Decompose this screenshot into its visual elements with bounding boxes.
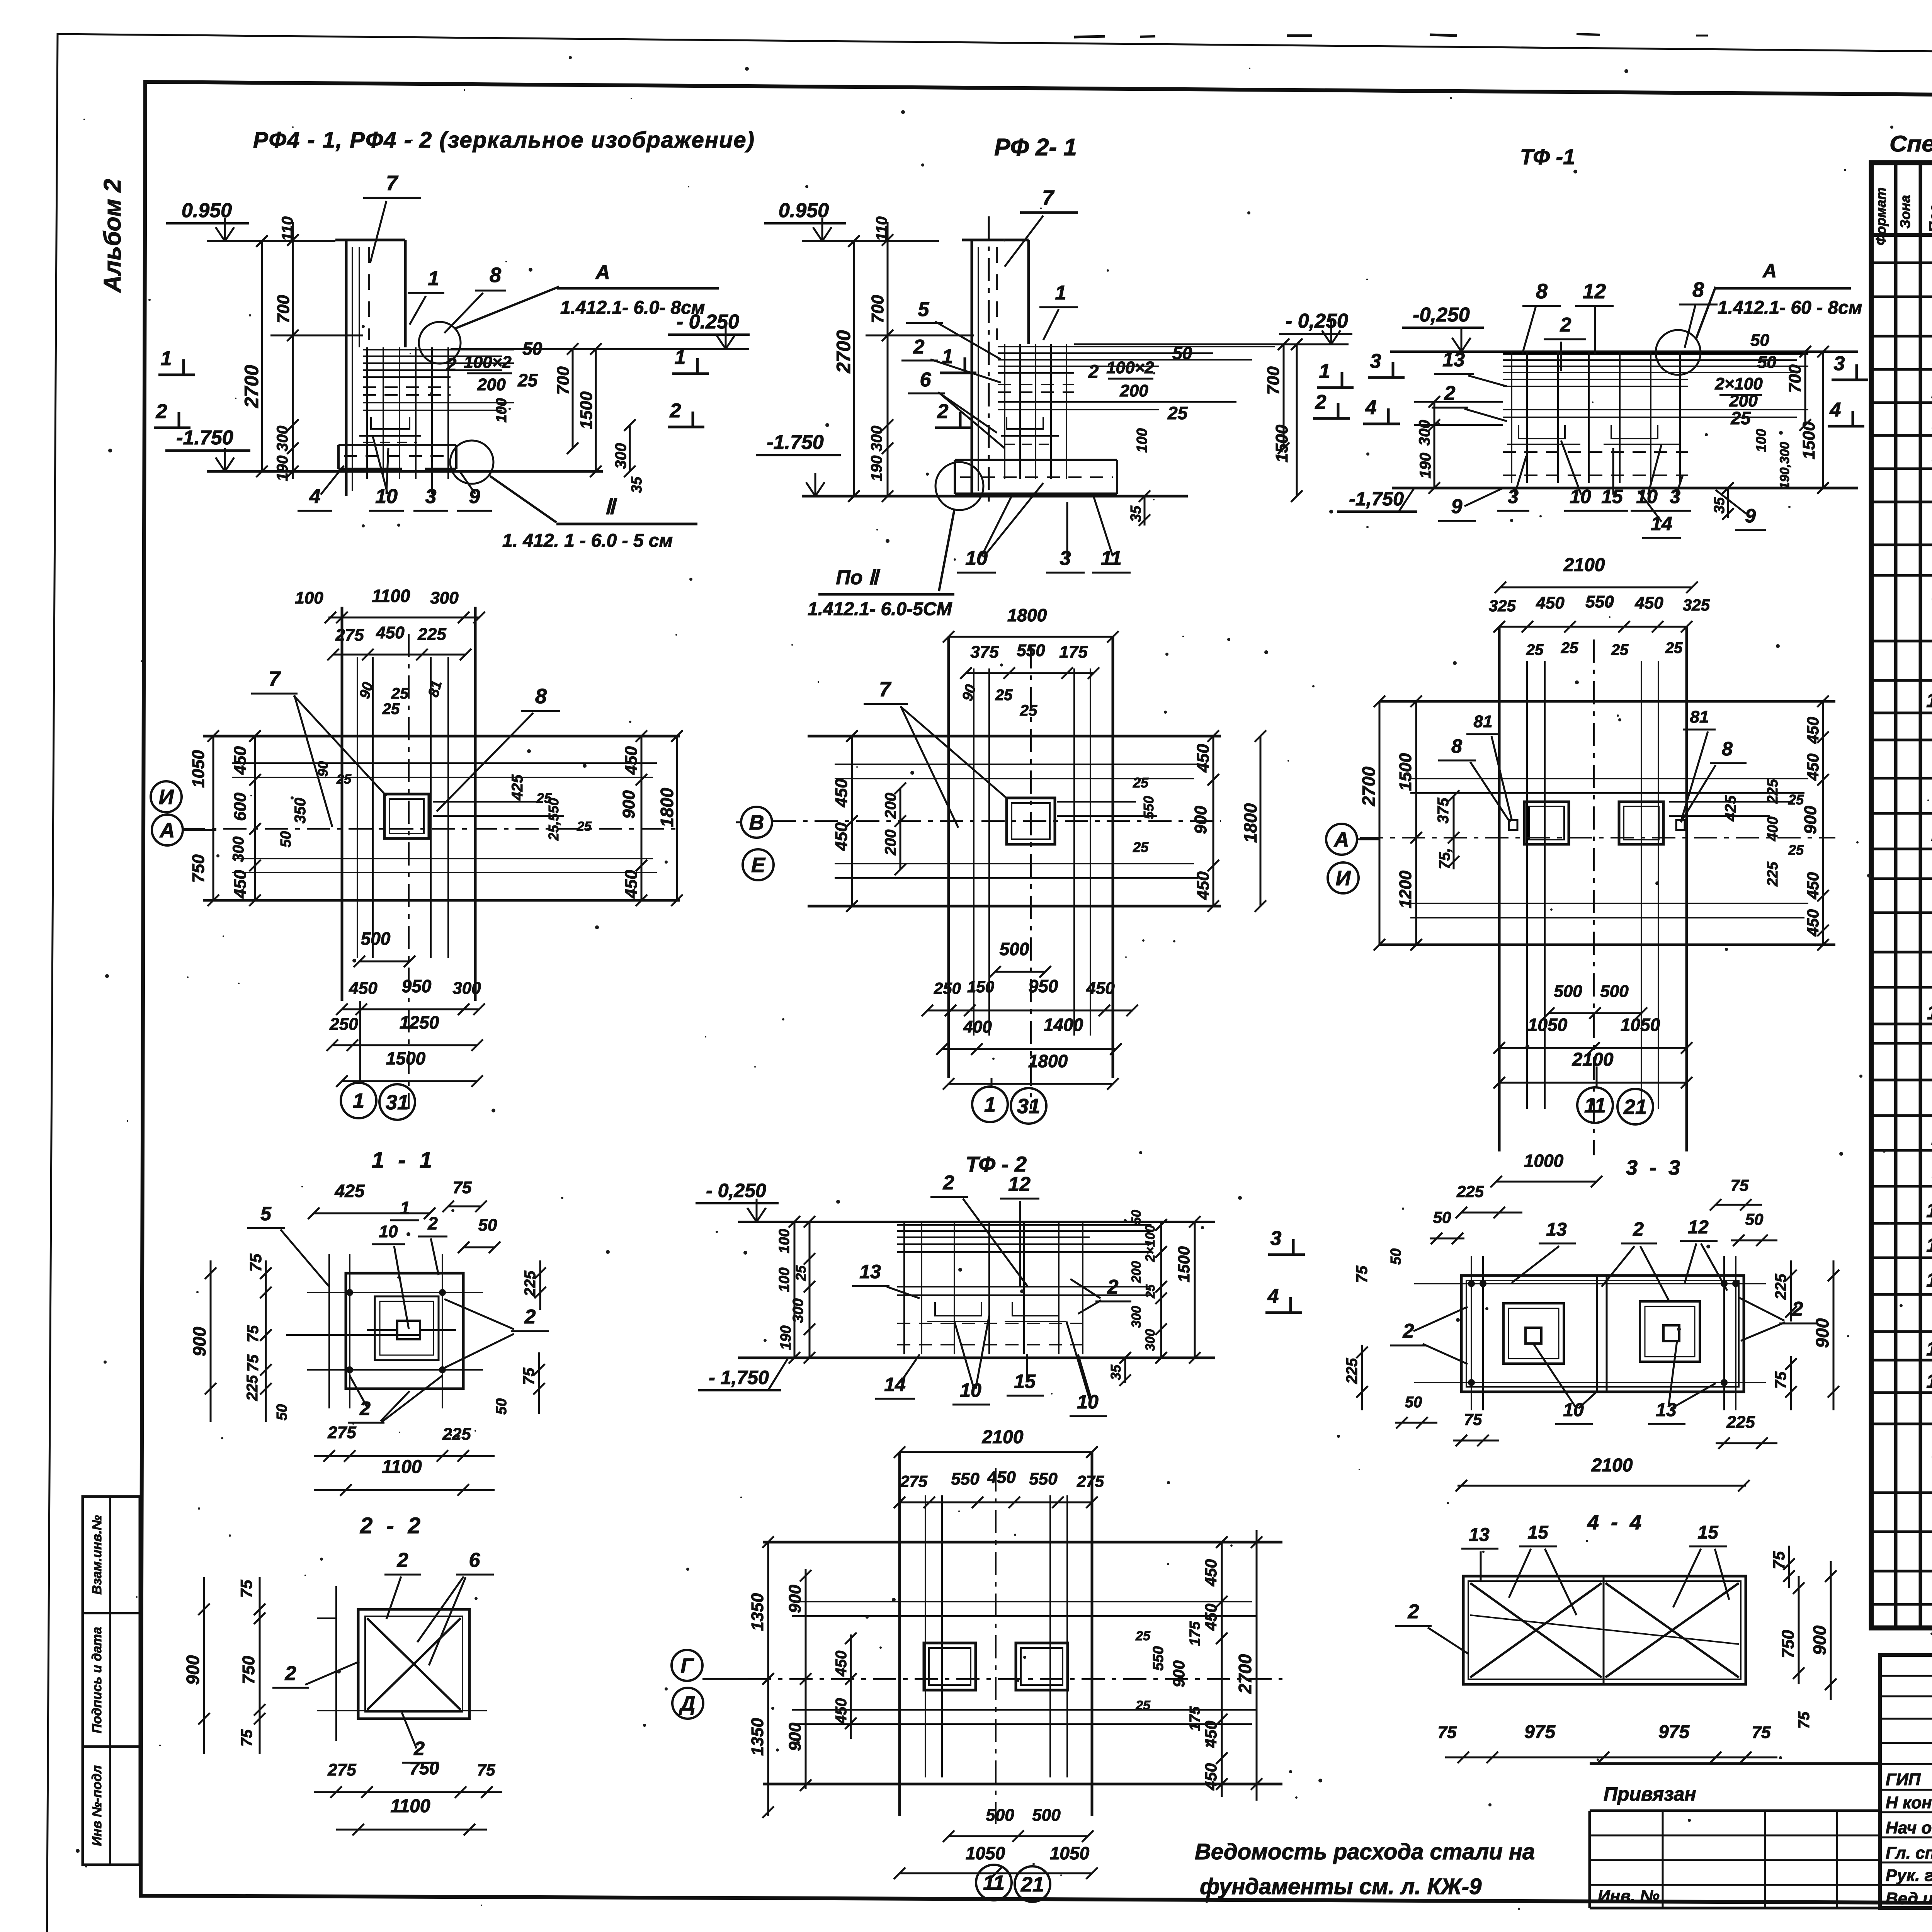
svg-text:А: А — [595, 261, 610, 284]
svg-text:1050: 1050 — [1621, 1015, 1660, 1035]
svg-text:75: 75 — [1772, 1371, 1789, 1389]
section 3-3 rebar lines — [1414, 1283, 1766, 1284]
ground line TF2 — [738, 1357, 1215, 1359]
svg-text:300: 300 — [230, 837, 247, 862]
svg-text:375: 375 — [970, 643, 999, 662]
svg-text:25: 25 — [336, 772, 352, 787]
svg-text:4: 4 — [1267, 1285, 1279, 1308]
section 1-1 outer square — [346, 1273, 463, 1389]
svg-text:225: 225 — [1772, 1274, 1789, 1300]
svg-text:225: 225 — [1456, 1182, 1484, 1201]
right dim extension lines RF2 — [1074, 346, 1275, 347]
svg-text:900: 900 — [786, 1585, 804, 1613]
svg-text:75: 75 — [1354, 1265, 1371, 1283]
svg-text:900: 900 — [189, 1327, 209, 1356]
svg-text:3: 3 — [425, 485, 437, 508]
plan RF4 strip bars — [357, 657, 358, 958]
svg-text:900: 900 — [1810, 1625, 1830, 1655]
svg-text:25: 25 — [1020, 702, 1037, 719]
axis bubble D TF2 — [672, 1688, 703, 1719]
plan TF1 horizontal strip — [1379, 700, 1835, 703]
grid bubble 11 TF1 — [1577, 1087, 1613, 1123]
svg-text:1050: 1050 — [1528, 1015, 1568, 1035]
svg-text:81: 81 — [1474, 712, 1493, 731]
svg-text:550: 550 — [1585, 592, 1614, 611]
svg-text:31: 31 — [1017, 1095, 1040, 1118]
svg-text:2700: 2700 — [241, 365, 262, 408]
title block left small grid — [1590, 1835, 1880, 1837]
svg-text:1: 1 — [400, 1198, 410, 1218]
svg-text:15: 15 — [1926, 1370, 1932, 1393]
svg-text:190: 190 — [868, 456, 885, 481]
svg-text:15: 15 — [1014, 1371, 1036, 1392]
svg-text:100×2: 100×2 — [1106, 358, 1154, 377]
svg-text:25: 25 — [1167, 403, 1188, 423]
plan RF4 column square — [384, 794, 429, 838]
svg-text:8: 8 — [490, 264, 501, 287]
plan TF1 strip inner lines — [1410, 778, 1808, 779]
svg-text:13: 13 — [1656, 1400, 1677, 1420]
svg-text:100×2: 100×2 — [464, 353, 512, 372]
svg-text:25: 25 — [1526, 641, 1544, 658]
svg-text:8: 8 — [1692, 278, 1704, 301]
svg-text:3 - 3: 3 - 3 — [1626, 1156, 1683, 1179]
svg-text:Е: Е — [751, 854, 766, 877]
svg-text:275: 275 — [327, 1423, 356, 1442]
svg-text:100: 100 — [776, 1229, 793, 1253]
svg-text:950: 950 — [1029, 976, 1058, 996]
svg-text:275: 275 — [900, 1472, 928, 1490]
svg-text:600: 600 — [231, 793, 250, 821]
grid bubble 1 RF4 — [341, 1083, 376, 1118]
svg-text:550: 550 — [1029, 1469, 1058, 1488]
svg-text:1500: 1500 — [1175, 1246, 1193, 1282]
column RF2 — [971, 240, 973, 496]
svg-text:190: 190 — [1417, 453, 1434, 479]
section 3-3 center double line — [1596, 1276, 1598, 1392]
svg-text:1 - 1: 1 - 1 — [372, 1148, 436, 1173]
svg-text:2700: 2700 — [833, 330, 854, 373]
svg-text:100: 100 — [1134, 428, 1150, 452]
svg-text:250: 250 — [934, 979, 961, 997]
plan RF2 vertical strip — [947, 637, 950, 1078]
svg-text:- 0,250: - 0,250 — [706, 1180, 766, 1201]
plan TF1 centerline — [1593, 639, 1595, 1155]
svg-text:2: 2 — [1088, 362, 1099, 382]
mesh RF2 hooks — [1007, 417, 1043, 429]
svg-text:225: 225 — [417, 625, 446, 644]
detail circle A RF4 — [419, 322, 461, 364]
svg-text:350: 350 — [292, 798, 309, 824]
svg-text:450: 450 — [231, 870, 250, 899]
svg-text:2: 2 — [524, 1306, 536, 1328]
svg-text:1. 412. 1 - 6.0 - 5 см: 1. 412. 1 - 6.0 - 5 см — [502, 531, 673, 551]
svg-text:2: 2 — [937, 400, 949, 423]
plan TF1 vertical strip — [1498, 627, 1501, 1151]
svg-text:2: 2 — [1107, 1276, 1119, 1298]
svg-text:6: 6 — [469, 1549, 481, 1571]
svg-text:8: 8 — [1536, 280, 1548, 303]
section 1-1 center plate — [397, 1321, 420, 1339]
svg-text:2: 2 — [1560, 314, 1571, 336]
svg-text:2700: 2700 — [1235, 1654, 1255, 1694]
svg-text:100: 100 — [776, 1267, 793, 1292]
plan TF1 strip bars — [1526, 661, 1528, 1109]
svg-text:1500: 1500 — [386, 1048, 426, 1068]
section 3-3 center plate 2 — [1663, 1325, 1679, 1341]
mesh RF4 lower hook bars — [371, 417, 410, 429]
svg-text:50: 50 — [1433, 1208, 1451, 1226]
svg-text:-1.750: -1.750 — [767, 431, 824, 454]
svg-text:450: 450 — [1634, 594, 1663, 612]
section 3-3 sub square 1 — [1503, 1303, 1564, 1364]
svg-text:1.412.1- 6.0-5СМ: 1.412.1- 6.0-5СМ — [808, 599, 952, 619]
svg-text:1100: 1100 — [372, 586, 410, 606]
section 2-2 outer square — [358, 1609, 469, 1719]
mesh TF2 hooks — [935, 1302, 981, 1316]
svg-text:1050: 1050 — [1050, 1843, 1090, 1863]
svg-text:10: 10 — [960, 1379, 981, 1401]
svg-text:7: 7 — [386, 172, 399, 195]
svg-text:500: 500 — [1554, 982, 1582, 1001]
svg-text:450: 450 — [833, 1698, 850, 1725]
svg-text:31: 31 — [386, 1091, 409, 1114]
right dim extension lines TF1 — [1688, 353, 1808, 355]
title block personnel rows — [1880, 1789, 1932, 1791]
svg-text:450: 450 — [231, 746, 250, 775]
grid bubble 1 RF2 — [972, 1087, 1008, 1122]
svg-text:фундаменты см. л. КЖ-9: фундаменты см. л. КЖ-9 — [1200, 1874, 1481, 1899]
right dim extension lines RF4 — [451, 349, 514, 350]
svg-text:275: 275 — [335, 626, 364, 645]
svg-text:500: 500 — [1000, 939, 1029, 959]
svg-text:190: 190 — [778, 1325, 794, 1350]
svg-text:- 0.250: - 0.250 — [677, 311, 739, 333]
grid bubble 31 RF4 — [379, 1084, 415, 1120]
svg-text:14: 14 — [1651, 513, 1672, 534]
svg-text:200: 200 — [1129, 1261, 1144, 1284]
grid bubble 31 RF2 — [1011, 1088, 1046, 1124]
detail circle bottom RF2 — [935, 462, 983, 510]
svg-text:2100: 2100 — [1563, 555, 1605, 575]
plan RF2 strip bars horizontal — [835, 764, 1198, 765]
svg-text:11: 11 — [1584, 1094, 1606, 1117]
left margin stamp cells — [83, 1497, 140, 1865]
plan RF2 column square — [1007, 798, 1055, 844]
grid bubble 21 TF1 — [1617, 1089, 1653, 1124]
svg-text:300: 300 — [612, 443, 629, 469]
section 3-3 outer rect — [1461, 1276, 1744, 1392]
mesh TF2 — [897, 1224, 1090, 1226]
svg-text:3: 3 — [1270, 1227, 1282, 1250]
svg-text:250: 250 — [329, 1015, 358, 1034]
svg-text:75: 75 — [237, 1580, 255, 1598]
svg-text:В: В — [749, 811, 764, 834]
svg-text:Подпись и дата: Подпись и дата — [90, 1627, 104, 1733]
plan RF2 horizontal strip — [808, 735, 1221, 738]
svg-text:25,550: 25,550 — [546, 798, 561, 841]
section 2-2 diagonals — [367, 1618, 461, 1710]
slab RF4 — [338, 444, 456, 446]
plan TF2 horizontal strip — [763, 1541, 1282, 1544]
section 1-1 corner dots — [346, 1289, 353, 1296]
plan TF1 column square 1 — [1524, 802, 1569, 844]
svg-text:9: 9 — [1745, 505, 1756, 527]
svg-text:200: 200 — [882, 830, 899, 856]
svg-text:Вед.инж: Вед.инж — [1886, 1889, 1932, 1908]
plan TF2 square 1 — [924, 1643, 976, 1690]
svg-text:3: 3 — [1370, 350, 1381, 372]
svg-text:7: 7 — [879, 678, 892, 701]
svg-text:75: 75 — [1770, 1551, 1788, 1569]
svg-text:1100: 1100 — [382, 1457, 422, 1477]
plan TF2 strip bars — [925, 1495, 926, 1777]
svg-text:1350: 1350 — [748, 1718, 767, 1756]
svg-text:100: 100 — [295, 588, 323, 607]
svg-text:700: 700 — [274, 295, 293, 323]
svg-text:75: 75 — [238, 1729, 255, 1747]
svg-text:50: 50 — [1757, 353, 1776, 372]
svg-text:81: 81 — [1690, 707, 1709, 726]
svg-text:2: 2 — [1408, 1600, 1419, 1623]
svg-text:975: 975 — [1658, 1722, 1690, 1742]
axis bubble A TF1 — [1326, 824, 1357, 855]
svg-text:12: 12 — [1688, 1217, 1709, 1238]
svg-text:425: 425 — [1722, 795, 1739, 821]
section 3-3 center plate 1 — [1526, 1328, 1541, 1344]
svg-text:900: 900 — [1170, 1660, 1188, 1687]
svg-text:1100: 1100 — [390, 1796, 430, 1816]
svg-text:300: 300 — [1416, 420, 1433, 446]
svg-text:300: 300 — [1129, 1306, 1144, 1328]
svg-text:450: 450 — [1804, 753, 1822, 781]
title block small rows top — [1880, 1675, 1932, 1677]
svg-text:Н контр.: Н контр. — [1886, 1793, 1932, 1812]
svg-text:75: 75 — [1752, 1723, 1771, 1742]
svg-text:Инв. №: Инв. № — [1598, 1887, 1660, 1906]
axis bubble I — [151, 781, 182, 812]
level line RF2 — [802, 240, 939, 242]
svg-text:750: 750 — [410, 1758, 439, 1778]
svg-text:450: 450 — [1202, 1763, 1220, 1791]
svg-text:450: 450 — [987, 1468, 1016, 1487]
svg-text:Поз.: Поз. — [1926, 200, 1932, 233]
section 4-4 inner rect — [1468, 1581, 1741, 1679]
svg-text:- 0,250: - 0,250 — [1286, 310, 1348, 332]
svg-text:1.412.1- 60 - 8см: 1.412.1- 60 - 8см — [1718, 298, 1862, 318]
svg-text:950: 950 — [402, 976, 432, 996]
svg-text:200: 200 — [1119, 381, 1148, 400]
svg-text:450: 450 — [1804, 872, 1822, 900]
svg-text:2: 2 — [1444, 382, 1456, 405]
plan TF1 column square 2 — [1619, 802, 1663, 844]
svg-text:Д: Д — [679, 1692, 696, 1715]
svg-text:75: 75 — [245, 1354, 262, 1372]
svg-text:750: 750 — [239, 1656, 258, 1684]
svg-text:25: 25 — [1611, 641, 1629, 658]
svg-text:225: 225 — [1765, 861, 1781, 886]
svg-text:2: 2 — [446, 355, 457, 375]
plan RF4 centerline vertical — [408, 634, 410, 1109]
svg-text:450: 450 — [1194, 744, 1213, 773]
svg-text:11: 11 — [983, 1871, 1005, 1895]
svg-text:225: 225 — [522, 1270, 539, 1297]
svg-text:225: 225 — [1344, 1358, 1361, 1384]
svg-text:35: 35 — [629, 476, 645, 493]
svg-text:10: 10 — [379, 1222, 398, 1241]
svg-text:13: 13 — [1442, 349, 1465, 371]
svg-text:900: 900 — [183, 1655, 203, 1685]
svg-text:4 - 4: 4 - 4 — [1587, 1511, 1645, 1534]
svg-text:1000: 1000 — [1524, 1151, 1564, 1171]
svg-text:Взам.инв.№: Взам.инв.№ — [90, 1515, 104, 1595]
svg-text:700: 700 — [1264, 366, 1283, 395]
axis bubble G TF2 — [672, 1650, 702, 1681]
svg-text:13: 13 — [859, 1261, 881, 1282]
svg-text:ГИП: ГИП — [1886, 1770, 1921, 1789]
svg-text:10: 10 — [1926, 689, 1932, 712]
svg-text:225: 225 — [1726, 1413, 1755, 1432]
axis bubble E — [743, 849, 774, 880]
svg-text:1050: 1050 — [189, 750, 208, 788]
svg-text:450: 450 — [1804, 909, 1822, 937]
plan TF2 centerline — [995, 1468, 997, 1824]
svg-text:75,: 75, — [1436, 848, 1453, 869]
svg-text:14: 14 — [884, 1374, 906, 1395]
svg-text:4: 4 — [1365, 396, 1377, 419]
svg-text:450: 450 — [376, 623, 405, 642]
svg-text:550: 550 — [951, 1469, 980, 1488]
svg-text:300: 300 — [1143, 1329, 1158, 1351]
svg-text:450: 450 — [349, 979, 378, 998]
axis bubble A — [152, 815, 183, 845]
level line TF2 — [738, 1221, 1215, 1223]
svg-text:10: 10 — [1570, 486, 1591, 507]
svg-text:450: 450 — [622, 746, 641, 775]
svg-text:275: 275 — [1077, 1472, 1104, 1490]
plan RF4 horizontal strip — [203, 735, 680, 738]
ground line TF1 — [1392, 487, 1858, 490]
svg-text:1500: 1500 — [1799, 422, 1818, 459]
svg-text:50: 50 — [278, 831, 294, 847]
svg-text:8: 8 — [1451, 735, 1462, 757]
svg-text:225: 225 — [244, 1375, 261, 1401]
svg-text:550: 550 — [1150, 1646, 1167, 1670]
svg-text:1800: 1800 — [1007, 605, 1047, 625]
detail circle 9 RF4 — [450, 440, 493, 484]
svg-text:450: 450 — [833, 1651, 850, 1677]
spec table row lines — [1871, 262, 1932, 264]
svg-text:И: И — [1336, 867, 1351, 890]
svg-text:450: 450 — [1194, 871, 1213, 900]
svg-text:4: 4 — [309, 485, 321, 508]
svg-text:900: 900 — [1812, 1318, 1832, 1348]
svg-text:190: 190 — [274, 456, 291, 481]
svg-text:Г: Г — [680, 1654, 694, 1677]
svg-text:975: 975 — [1524, 1722, 1556, 1742]
svg-text:25: 25 — [1788, 792, 1804, 808]
svg-text:500: 500 — [1032, 1806, 1061, 1825]
svg-text:1: 1 — [675, 346, 686, 369]
axis bubble I TF1 — [1328, 862, 1359, 893]
svg-text:50: 50 — [1388, 1248, 1404, 1265]
svg-text:200: 200 — [477, 375, 506, 394]
svg-text:1500: 1500 — [1396, 753, 1415, 791]
svg-text:13: 13 — [1926, 1234, 1932, 1257]
svg-text:50: 50 — [274, 1404, 290, 1420]
svg-text:Формат: Формат — [1873, 187, 1889, 245]
svg-text:1: 1 — [984, 1093, 996, 1116]
svg-text:21: 21 — [1623, 1095, 1647, 1119]
detail label II note RF4 — [490, 476, 556, 522]
svg-text:200: 200 — [882, 793, 899, 819]
detail label A TF1 — [1696, 287, 1716, 338]
section 2-2 rebar lines — [335, 1586, 337, 1741]
svg-text:50: 50 — [1750, 331, 1769, 350]
svg-text:21: 21 — [1020, 1873, 1044, 1896]
svg-text:2100: 2100 — [1591, 1455, 1633, 1476]
svg-text:75: 75 — [1796, 1711, 1813, 1729]
svg-text:1: 1 — [1055, 282, 1066, 304]
svg-text:50: 50 — [1405, 1394, 1422, 1411]
svg-text:300: 300 — [430, 588, 459, 607]
svg-text:2: 2 — [670, 400, 681, 422]
svg-text:400: 400 — [963, 1017, 992, 1036]
svg-text:750: 750 — [1779, 1630, 1798, 1658]
column RF4 — [345, 240, 348, 496]
svg-text:1: 1 — [161, 347, 172, 370]
svg-text:8: 8 — [535, 685, 547, 708]
grid bubble 11 TF2 — [976, 1865, 1012, 1900]
svg-text:А: А — [159, 819, 175, 842]
svg-text:2×100: 2×100 — [1714, 374, 1763, 393]
svg-text:1500: 1500 — [1272, 425, 1291, 463]
plan TF2 vertical strip — [898, 1452, 901, 1816]
svg-text:450: 450 — [622, 870, 641, 899]
svg-text:3: 3 — [1060, 547, 1071, 570]
svg-text:- 1,750: - 1,750 — [709, 1367, 769, 1388]
scan specks top — [1074, 36, 1105, 37]
svg-text:275: 275 — [327, 1760, 356, 1779]
svg-text:500: 500 — [986, 1806, 1014, 1825]
svg-text:Нач отд: Нач отд — [1886, 1818, 1932, 1837]
plan RF2 axis line — [773, 820, 1221, 822]
svg-text:10: 10 — [1926, 1338, 1932, 1360]
svg-text:2: 2 — [427, 1213, 438, 1233]
svg-text:Инв №-подл: Инв №-подл — [90, 1765, 104, 1846]
svg-text:450: 450 — [1202, 1604, 1220, 1631]
svg-text:75: 75 — [245, 1325, 262, 1342]
svg-text:25: 25 — [1133, 775, 1149, 791]
plan TF2 axis line — [748, 1678, 1282, 1680]
svg-text:25: 25 — [1561, 639, 1578, 656]
mesh RF2 foundation — [998, 346, 1074, 347]
ground line RF4 — [207, 470, 603, 473]
mesh TF1 — [1503, 353, 1688, 355]
svg-text:25: 25 — [1135, 1629, 1151, 1643]
plan TF2 square 2 — [1016, 1643, 1068, 1690]
section 1-1 rebar cross lines — [307, 1292, 483, 1293]
svg-text:1500: 1500 — [577, 391, 596, 429]
svg-text:15: 15 — [1527, 1522, 1549, 1543]
svg-text:400: 400 — [1765, 816, 1781, 841]
svg-text:450: 450 — [832, 822, 851, 851]
svg-text:25: 25 — [1788, 842, 1804, 858]
svg-text:425: 425 — [509, 774, 526, 801]
svg-text:ТФ - 2: ТФ - 2 — [966, 1152, 1027, 1176]
svg-text:14: 14 — [1926, 1269, 1932, 1291]
svg-text:25: 25 — [1730, 408, 1751, 428]
